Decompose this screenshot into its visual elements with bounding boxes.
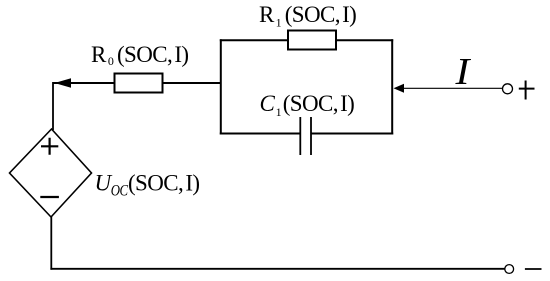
minus polarity mark inside source (40, 196, 59, 198)
capacitor C1 left plate (299, 117, 301, 155)
capacitor C1 right plate (310, 117, 312, 155)
RC block outline: bottom edge left segment to C1 plate (220, 133, 300, 135)
RC block outline: left edge (220, 39, 222, 134)
svg-text:C1(SOC,I): C1(SOC,I) (260, 91, 355, 119)
wire: source bottom to bottom rail (50, 216, 52, 270)
RC block outline: bottom edge right segment from C1 plate (311, 133, 393, 135)
plus sign at positive terminal (519, 81, 535, 100)
positive terminal circle (503, 84, 513, 94)
wire: current lead from positive terminal to RC block (403, 87, 503, 89)
wire: R0 right lead to RC block left edge (163, 82, 221, 84)
RC block outline: top edge left segment to R1 (220, 39, 288, 41)
dependent voltage source Uoc diamond (10, 129, 92, 217)
svg-text:R1(SOC,I): R1(SOC,I) (259, 2, 356, 30)
wire: bottom rail to negative terminal (50, 268, 504, 270)
minus sign at negative terminal (525, 268, 542, 270)
svg-text:OC: OC (111, 182, 129, 200)
plus polarity mark inside source (41, 138, 58, 155)
arrowhead at top-left node pointing left (55, 78, 72, 88)
wire: top rail, arrow corner to R0 left lead (53, 82, 115, 84)
svg-text:I: I (454, 50, 471, 93)
negative terminal circle (505, 265, 514, 274)
RC block outline: right edge (391, 39, 393, 134)
resistor R0 body (115, 74, 163, 93)
svg-text:R0(SOC,I): R0(SOC,I) (91, 42, 189, 68)
wire: left vertical drop from arrow corner to source top (52, 82, 54, 130)
arrowhead of current I pointing left into RC block (394, 84, 405, 93)
RC block outline: top edge right segment from R1 (336, 39, 393, 41)
resistor R1 body (288, 31, 336, 50)
